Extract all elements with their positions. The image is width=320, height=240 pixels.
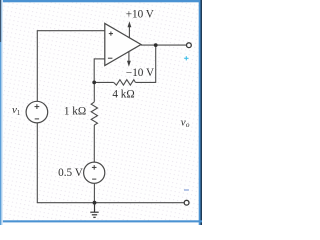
svg-text:+10 V: +10 V — [126, 8, 154, 20]
0.5V minus sign — [92, 178, 96, 180]
ground — [90, 203, 98, 218]
wire top horizontal to op-amp + input — [37, 30, 105, 32]
border frame bottom — [0, 220, 202, 222]
node output junction — [154, 43, 158, 47]
-10V supply arrow — [127, 52, 131, 67]
v1 plus sign — [35, 104, 40, 109]
voltage source v1 circle — [26, 101, 48, 123]
wire left loop vertical (v1 top to top-left corner) — [36, 31, 38, 102]
wire node to 1k resistor top lead — [93, 82, 95, 102]
resistor R 4k zigzag — [114, 80, 136, 85]
svg-text:0.5 V: 0.5 V — [58, 167, 83, 179]
0.5V plus sign — [92, 165, 97, 170]
border frame left — [0, 0, 3, 225]
op-amp U1 triangle — [105, 23, 141, 65]
label - polarity (blue) — [184, 189, 189, 191]
terminal vo+ open circle — [187, 43, 192, 48]
border frame right — [199, 0, 202, 225]
label + polarity (cyan) — [184, 56, 188, 60]
wire feedback node to 4k resistor lead — [94, 81, 113, 83]
svg-text:4 kΩ: 4 kΩ — [112, 89, 134, 101]
wire inverting input stub — [94, 58, 105, 60]
resistor R 1k zigzag — [91, 102, 97, 125]
voltage source 0.5V circle — [84, 162, 105, 183]
op-amp - input sign — [108, 57, 113, 59]
op-amp + input sign — [109, 32, 113, 36]
wire v1 bottom down to bottom rail — [36, 123, 38, 203]
wire feedback vertical up to output node — [155, 45, 157, 83]
wire bottom rail — [37, 202, 184, 204]
wire inverting input down to feedback node — [93, 58, 95, 82]
node feedback junction — [92, 81, 96, 85]
border frame top — [0, 0, 202, 2]
+10V supply arrow — [128, 21, 132, 38]
wire output to terminal — [141, 44, 186, 46]
wire 4k resistor right lead — [135, 81, 155, 83]
svg-text:−10 V: −10 V — [126, 67, 154, 79]
svg-text:1 kΩ: 1 kΩ — [64, 105, 86, 117]
v1 minus sign — [35, 118, 39, 120]
node ground junction — [93, 201, 97, 205]
terminal vo- open circle — [184, 200, 189, 205]
wire 0.5V source bottom to ground node — [93, 183, 95, 203]
wire 1k resistor bottom lead to 0.5V source — [93, 125, 95, 162]
